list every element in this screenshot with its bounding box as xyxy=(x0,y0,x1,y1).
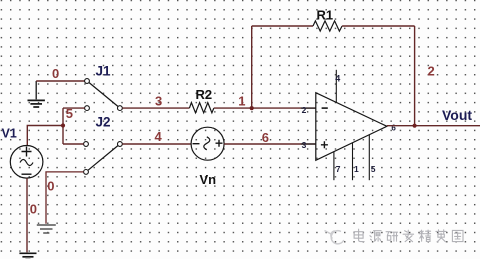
voltage source V1 xyxy=(2,127,43,179)
svg-text:2: 2 xyxy=(428,64,435,79)
wire net 1 riser (to R1 left) xyxy=(251,26,253,108)
source Vn xyxy=(191,127,224,187)
svg-text:J2: J2 xyxy=(96,115,111,130)
ground GND1 (top left) xyxy=(28,81,45,107)
svg-text:R2: R2 xyxy=(196,87,213,102)
svg-text:3: 3 xyxy=(302,140,307,150)
watermark logo xyxy=(325,231,344,244)
svg-text:1: 1 xyxy=(354,164,359,174)
switch J2 xyxy=(84,115,123,175)
svg-text:5: 5 xyxy=(371,164,376,174)
watermark text xyxy=(354,229,463,242)
svg-text:0: 0 xyxy=(52,66,59,81)
junction output xyxy=(413,124,417,128)
junction net 1 xyxy=(250,106,254,110)
ground GND2 (below J2, grey) xyxy=(37,225,56,233)
wire J2 throw 2 to ground (net 0) xyxy=(46,172,84,224)
svg-text:6: 6 xyxy=(391,123,396,132)
junction net 5 xyxy=(61,123,65,127)
wire net 4 (J2 common to Vn) xyxy=(122,143,191,145)
wire net 2 riser (R1 right to output) xyxy=(414,26,416,126)
wire J2 throw1 stub (net 5) xyxy=(63,143,84,145)
svg-text:Vn: Vn xyxy=(200,172,217,187)
svg-text:0: 0 xyxy=(47,179,54,194)
wire output net 2 (op-amp out to Vout) xyxy=(387,125,480,127)
svg-text:4: 4 xyxy=(155,129,163,144)
svg-text:V1: V1 xyxy=(2,127,17,141)
svg-text:0: 0 xyxy=(30,202,37,217)
svg-text:Vout: Vout xyxy=(442,107,472,123)
svg-text:2: 2 xyxy=(302,105,307,115)
svg-text:1: 1 xyxy=(238,94,245,109)
switch J1 xyxy=(85,64,123,111)
wire net 1 (R2 to op-amp inverting input) xyxy=(214,107,316,109)
wire net 5 (J1 throw 2 stub, vertical, V1 branch) xyxy=(27,108,84,146)
wire net 6 (Vn to op-amp non-inverting input) xyxy=(224,143,316,145)
svg-text:3: 3 xyxy=(155,94,162,109)
svg-text:J1: J1 xyxy=(96,64,112,79)
svg-text:7: 7 xyxy=(336,164,341,174)
ground GND3 (below V1) xyxy=(19,253,36,259)
wire net 0 (ground to J1 throw 1) xyxy=(36,80,84,82)
svg-text:R1: R1 xyxy=(317,8,334,23)
svg-text:4: 4 xyxy=(335,74,340,84)
svg-text:5: 5 xyxy=(66,106,73,121)
op-amp U1 xyxy=(301,70,397,180)
resistor R2 xyxy=(189,87,213,113)
resistor R1 (feedback) xyxy=(252,8,415,32)
wire V1 minus to ground (net 0) xyxy=(26,178,28,252)
svg-text:6: 6 xyxy=(262,130,269,145)
wire net 3 (J1 common to R2) xyxy=(122,107,189,109)
